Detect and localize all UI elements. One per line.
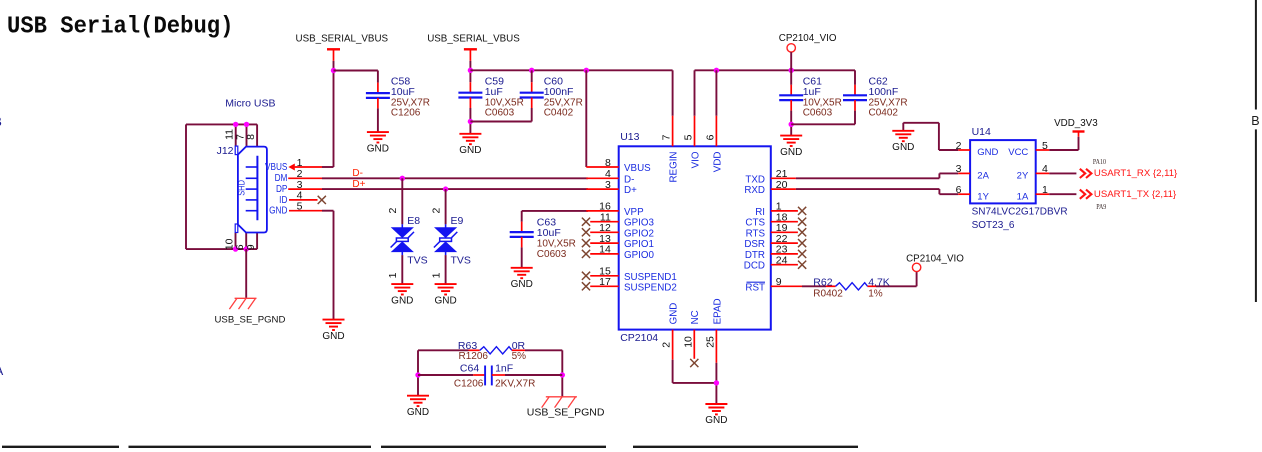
svg-text:GND: GND: [892, 142, 914, 153]
svg-text:GND: GND: [511, 279, 533, 290]
svg-text:USB_SE_PGND: USB_SE_PGND: [215, 314, 286, 325]
svg-text:2KV,X7R: 2KV,X7R: [495, 379, 535, 390]
svg-text:DTR: DTR: [745, 250, 765, 261]
svg-text:REGIN: REGIN: [669, 152, 680, 183]
svg-text:VIO: VIO: [690, 151, 701, 168]
svg-text:DM: DM: [275, 173, 288, 184]
svg-text:D-: D-: [352, 168, 363, 179]
svg-text:7: 7: [661, 134, 673, 140]
svg-text:R0402: R0402: [813, 288, 843, 299]
svg-text:TVS: TVS: [451, 255, 471, 267]
svg-text:U14: U14: [972, 126, 991, 138]
svg-text:R1206: R1206: [459, 351, 489, 362]
svg-text:25: 25: [705, 336, 717, 348]
svg-text:5%: 5%: [512, 351, 527, 362]
svg-text:1: 1: [387, 272, 399, 278]
svg-text:9: 9: [245, 244, 257, 250]
svg-text:TXD: TXD: [745, 174, 765, 185]
svg-text:1%: 1%: [868, 288, 883, 299]
svg-text:USB_SERIAL_VBUS: USB_SERIAL_VBUS: [296, 34, 389, 45]
svg-text:10V,X5R: 10V,X5R: [537, 238, 576, 249]
svg-text:GND: GND: [322, 331, 344, 342]
svg-text:RI: RI: [755, 207, 765, 218]
svg-text:2: 2: [430, 208, 442, 214]
svg-text:SN74LVC2G17DBVR: SN74LVC2G17DBVR: [972, 206, 1068, 217]
svg-text:RXD: RXD: [744, 185, 765, 196]
svg-text:NC: NC: [690, 310, 701, 324]
svg-text:SUSPEND2: SUSPEND2: [624, 282, 677, 293]
svg-text:2Y: 2Y: [1017, 171, 1029, 182]
svg-text:8: 8: [245, 134, 257, 140]
svg-text:GND: GND: [705, 415, 727, 426]
svg-text:J12: J12: [217, 145, 234, 157]
svg-text:GPIO0: GPIO0: [624, 250, 654, 261]
svg-text:USB Serial(Debug): USB Serial(Debug): [7, 13, 233, 40]
svg-text:VCC: VCC: [1008, 147, 1028, 158]
svg-text:USB_SE_PGND: USB_SE_PGND: [527, 406, 605, 418]
svg-text:5: 5: [683, 134, 695, 140]
svg-text:GPIO2: GPIO2: [624, 228, 654, 239]
svg-text:GND: GND: [434, 295, 456, 306]
svg-text:VPP: VPP: [624, 207, 644, 218]
svg-text:D+: D+: [624, 185, 637, 196]
svg-text:ID: ID: [279, 194, 288, 205]
svg-text:VBUS: VBUS: [265, 161, 287, 172]
svg-text:GPIO3: GPIO3: [624, 218, 654, 229]
svg-text:1: 1: [430, 272, 442, 278]
svg-text:GND: GND: [269, 205, 288, 216]
svg-text:C1206: C1206: [391, 108, 421, 119]
svg-text:CP2104: CP2104: [620, 332, 658, 344]
svg-text:TVS: TVS: [407, 255, 427, 267]
svg-text:GND: GND: [780, 147, 802, 158]
svg-text:RST: RST: [745, 282, 765, 293]
svg-text:RTS: RTS: [746, 228, 766, 239]
svg-text:1uF: 1uF: [803, 86, 821, 98]
svg-text:GND: GND: [367, 143, 389, 154]
svg-text:VDD: VDD: [712, 152, 723, 173]
svg-text:DCD: DCD: [744, 261, 765, 272]
svg-text:SHD: SHD: [237, 180, 247, 196]
svg-text:GND: GND: [407, 407, 429, 418]
svg-text:PA10: PA10: [1093, 158, 1107, 166]
svg-text:VDD_3V3: VDD_3V3: [1054, 118, 1098, 129]
svg-text:E8: E8: [407, 215, 420, 227]
svg-text:SUSPEND1: SUSPEND1: [624, 272, 677, 283]
svg-text:C0603: C0603: [537, 249, 567, 260]
svg-text:C0603: C0603: [803, 108, 833, 119]
svg-text:SOT23_6: SOT23_6: [972, 220, 1015, 231]
svg-text:C0402: C0402: [869, 108, 899, 119]
svg-text:GPIO1: GPIO1: [624, 239, 654, 250]
svg-text:6: 6: [705, 134, 717, 140]
svg-text:2A: 2A: [977, 171, 989, 182]
svg-text:B: B: [0, 115, 2, 129]
svg-text:PA9: PA9: [1096, 203, 1107, 211]
svg-text:1nF: 1nF: [495, 362, 513, 374]
svg-text:C1206: C1206: [454, 379, 484, 390]
svg-text:10uF: 10uF: [391, 86, 415, 98]
svg-text:E9: E9: [451, 215, 464, 227]
svg-text:Micro USB: Micro USB: [225, 97, 275, 109]
svg-text:USB_SERIAL_VBUS: USB_SERIAL_VBUS: [427, 33, 520, 44]
svg-text:CP2104_VIO: CP2104_VIO: [906, 253, 964, 264]
svg-text:GND: GND: [669, 303, 680, 325]
svg-text:1uF: 1uF: [485, 86, 503, 98]
svg-text:DP: DP: [276, 183, 287, 194]
svg-text:B: B: [1251, 114, 1259, 128]
svg-text:DSR: DSR: [744, 239, 765, 250]
svg-text:CTS: CTS: [745, 218, 765, 229]
svg-text:USART1_TX {2,11}: USART1_TX {2,11}: [1094, 189, 1177, 200]
svg-text:2: 2: [661, 342, 673, 348]
svg-text:4.7K: 4.7K: [868, 277, 890, 289]
svg-text:D-: D-: [624, 174, 634, 185]
svg-text:R62: R62: [813, 277, 832, 289]
svg-text:100nF: 100nF: [544, 86, 574, 98]
svg-text:1A: 1A: [1017, 191, 1029, 202]
svg-text:C0402: C0402: [544, 108, 574, 119]
svg-text:EPAD: EPAD: [712, 298, 723, 324]
svg-text:USART1_RX {2,11}: USART1_RX {2,11}: [1094, 168, 1178, 179]
svg-text:2: 2: [387, 208, 399, 214]
svg-text:1Y: 1Y: [977, 191, 989, 202]
svg-text:C64: C64: [460, 362, 479, 374]
svg-text:GND: GND: [977, 147, 998, 158]
svg-text:C0603: C0603: [485, 108, 515, 119]
svg-text:100nF: 100nF: [869, 86, 899, 98]
svg-text:VBUS: VBUS: [624, 163, 651, 174]
svg-text:GND: GND: [459, 145, 481, 156]
svg-text:CP2104_VIO: CP2104_VIO: [779, 33, 837, 44]
svg-text:GND: GND: [391, 295, 413, 306]
svg-text:10uF: 10uF: [537, 227, 561, 239]
svg-text:10: 10: [682, 336, 694, 348]
svg-text:D+: D+: [352, 179, 365, 190]
svg-text:U13: U13: [620, 131, 639, 143]
